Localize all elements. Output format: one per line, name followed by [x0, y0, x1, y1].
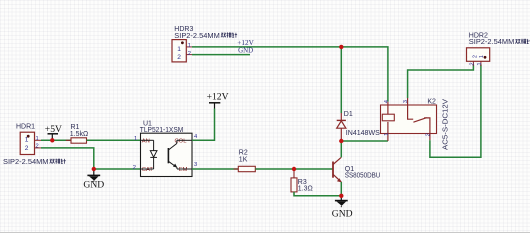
- svg-text:1: 1: [477, 62, 483, 65]
- resistor R1: [66, 124, 92, 143]
- net label GND: [238, 46, 253, 55]
- svg-text:GND: GND: [238, 46, 253, 55]
- wire +12V rail (HDR3 pin1 to relay pin4): [192, 47, 388, 102]
- svg-text:1.3Ω: 1.3Ω: [298, 185, 313, 192]
- wire HDR1 pin1 to R1: [41, 139, 71, 141]
- wire R1 to U1 pin1: [87, 139, 141, 141]
- wire U1 pin4 to +12V: [192, 109, 215, 141]
- svg-text:HDR1: HDR1: [16, 124, 35, 131]
- svg-text:2: 2: [188, 51, 191, 57]
- resistor R3: [291, 169, 313, 196]
- svg-text:IN4148WS: IN4148WS: [346, 130, 380, 137]
- wire Q1 emitter: [340, 182, 342, 196]
- wire U1 pin3 to R2: [192, 168, 238, 170]
- svg-text:1.5kΩ: 1.5kΩ: [70, 131, 88, 138]
- svg-text:4: 4: [384, 99, 390, 103]
- wire Q1 collector: [340, 141, 342, 157]
- optocoupler U1: [133, 120, 198, 176]
- wire HDR1 pin2 to U1 pin2: [41, 148, 141, 169]
- junction GND tap: [92, 167, 96, 171]
- net label +12V: [237, 38, 254, 47]
- svg-text:2: 2: [472, 55, 478, 58]
- svg-text:2: 2: [469, 62, 475, 65]
- svg-text:D1: D1: [344, 111, 353, 118]
- ground GND (left): [83, 169, 104, 191]
- wire relay pin2 to HDR2 right pin: [430, 65, 481, 158]
- svg-text:EM: EM: [179, 167, 188, 173]
- pin 3 stub: [407, 98, 409, 105]
- svg-text:SIP2-2.54MM: SIP2-2.54MM: [174, 33, 220, 40]
- svg-text:+12V: +12V: [207, 92, 229, 103]
- svg-text:2: 2: [25, 145, 29, 152]
- junction base/R3: [292, 167, 296, 171]
- svg-text:1: 1: [177, 46, 181, 53]
- power port +12V (above U1): [207, 92, 229, 109]
- svg-text:2: 2: [133, 165, 136, 171]
- relay K2: [381, 98, 450, 150]
- svg-text:2: 2: [36, 144, 39, 150]
- LED inside U1: [141, 140, 158, 169]
- svg-text:1: 1: [25, 137, 29, 144]
- diode D1: [337, 111, 380, 141]
- svg-text:SIP2-2.54MM: SIP2-2.54MM: [469, 39, 515, 46]
- switch contact: [408, 105, 414, 119]
- transistor Q1: [333, 157, 380, 182]
- svg-text:3: 3: [403, 100, 409, 103]
- svg-text:1K: 1K: [239, 156, 248, 163]
- svg-text:GND: GND: [332, 209, 353, 220]
- coil: [387, 102, 389, 116]
- svg-text:SIP2-2.54MM: SIP2-2.54MM: [3, 159, 49, 166]
- svg-text:2: 2: [177, 54, 181, 61]
- wire collector node to relay pin1: [341, 140, 388, 142]
- svg-text:1: 1: [479, 55, 485, 58]
- svg-text:1: 1: [188, 43, 191, 49]
- svg-text:1: 1: [384, 133, 390, 136]
- ground GND (Q1): [332, 196, 353, 220]
- wire relay pin3 to HDR2 left pin: [408, 65, 474, 99]
- svg-text:AC5-S-DC12V: AC5-S-DC12V: [443, 99, 450, 150]
- svg-text:CAT: CAT: [142, 167, 154, 173]
- junction +5V tap: [50, 138, 54, 142]
- connector HDR1: [3, 124, 66, 167]
- wire R3 to emitter node: [294, 192, 341, 196]
- junction +12V/D1: [339, 45, 343, 49]
- phototransistor inside U1: [168, 140, 192, 169]
- connector HDR3: [172, 26, 237, 62]
- connector HDR2: [467, 33, 530, 67]
- svg-text:SS8050DBU: SS8050DBU: [345, 173, 381, 180]
- junction emitter/GND: [339, 194, 343, 198]
- wire HDR3 pin2 GND stub: [192, 54, 250, 56]
- wire +12V rail to D1: [340, 47, 342, 113]
- junction D1/collector: [339, 139, 343, 143]
- wire R2 to Q1 base: [255, 168, 333, 170]
- power port +5V: [45, 124, 62, 140]
- resistor R2: [234, 150, 261, 172]
- svg-text:1: 1: [134, 136, 137, 142]
- svg-text:1: 1: [36, 136, 39, 142]
- svg-text:3: 3: [194, 162, 197, 168]
- svg-text:4: 4: [194, 134, 198, 140]
- svg-text:2: 2: [426, 133, 432, 136]
- svg-text:AN: AN: [142, 138, 150, 144]
- svg-text:GND: GND: [83, 180, 104, 191]
